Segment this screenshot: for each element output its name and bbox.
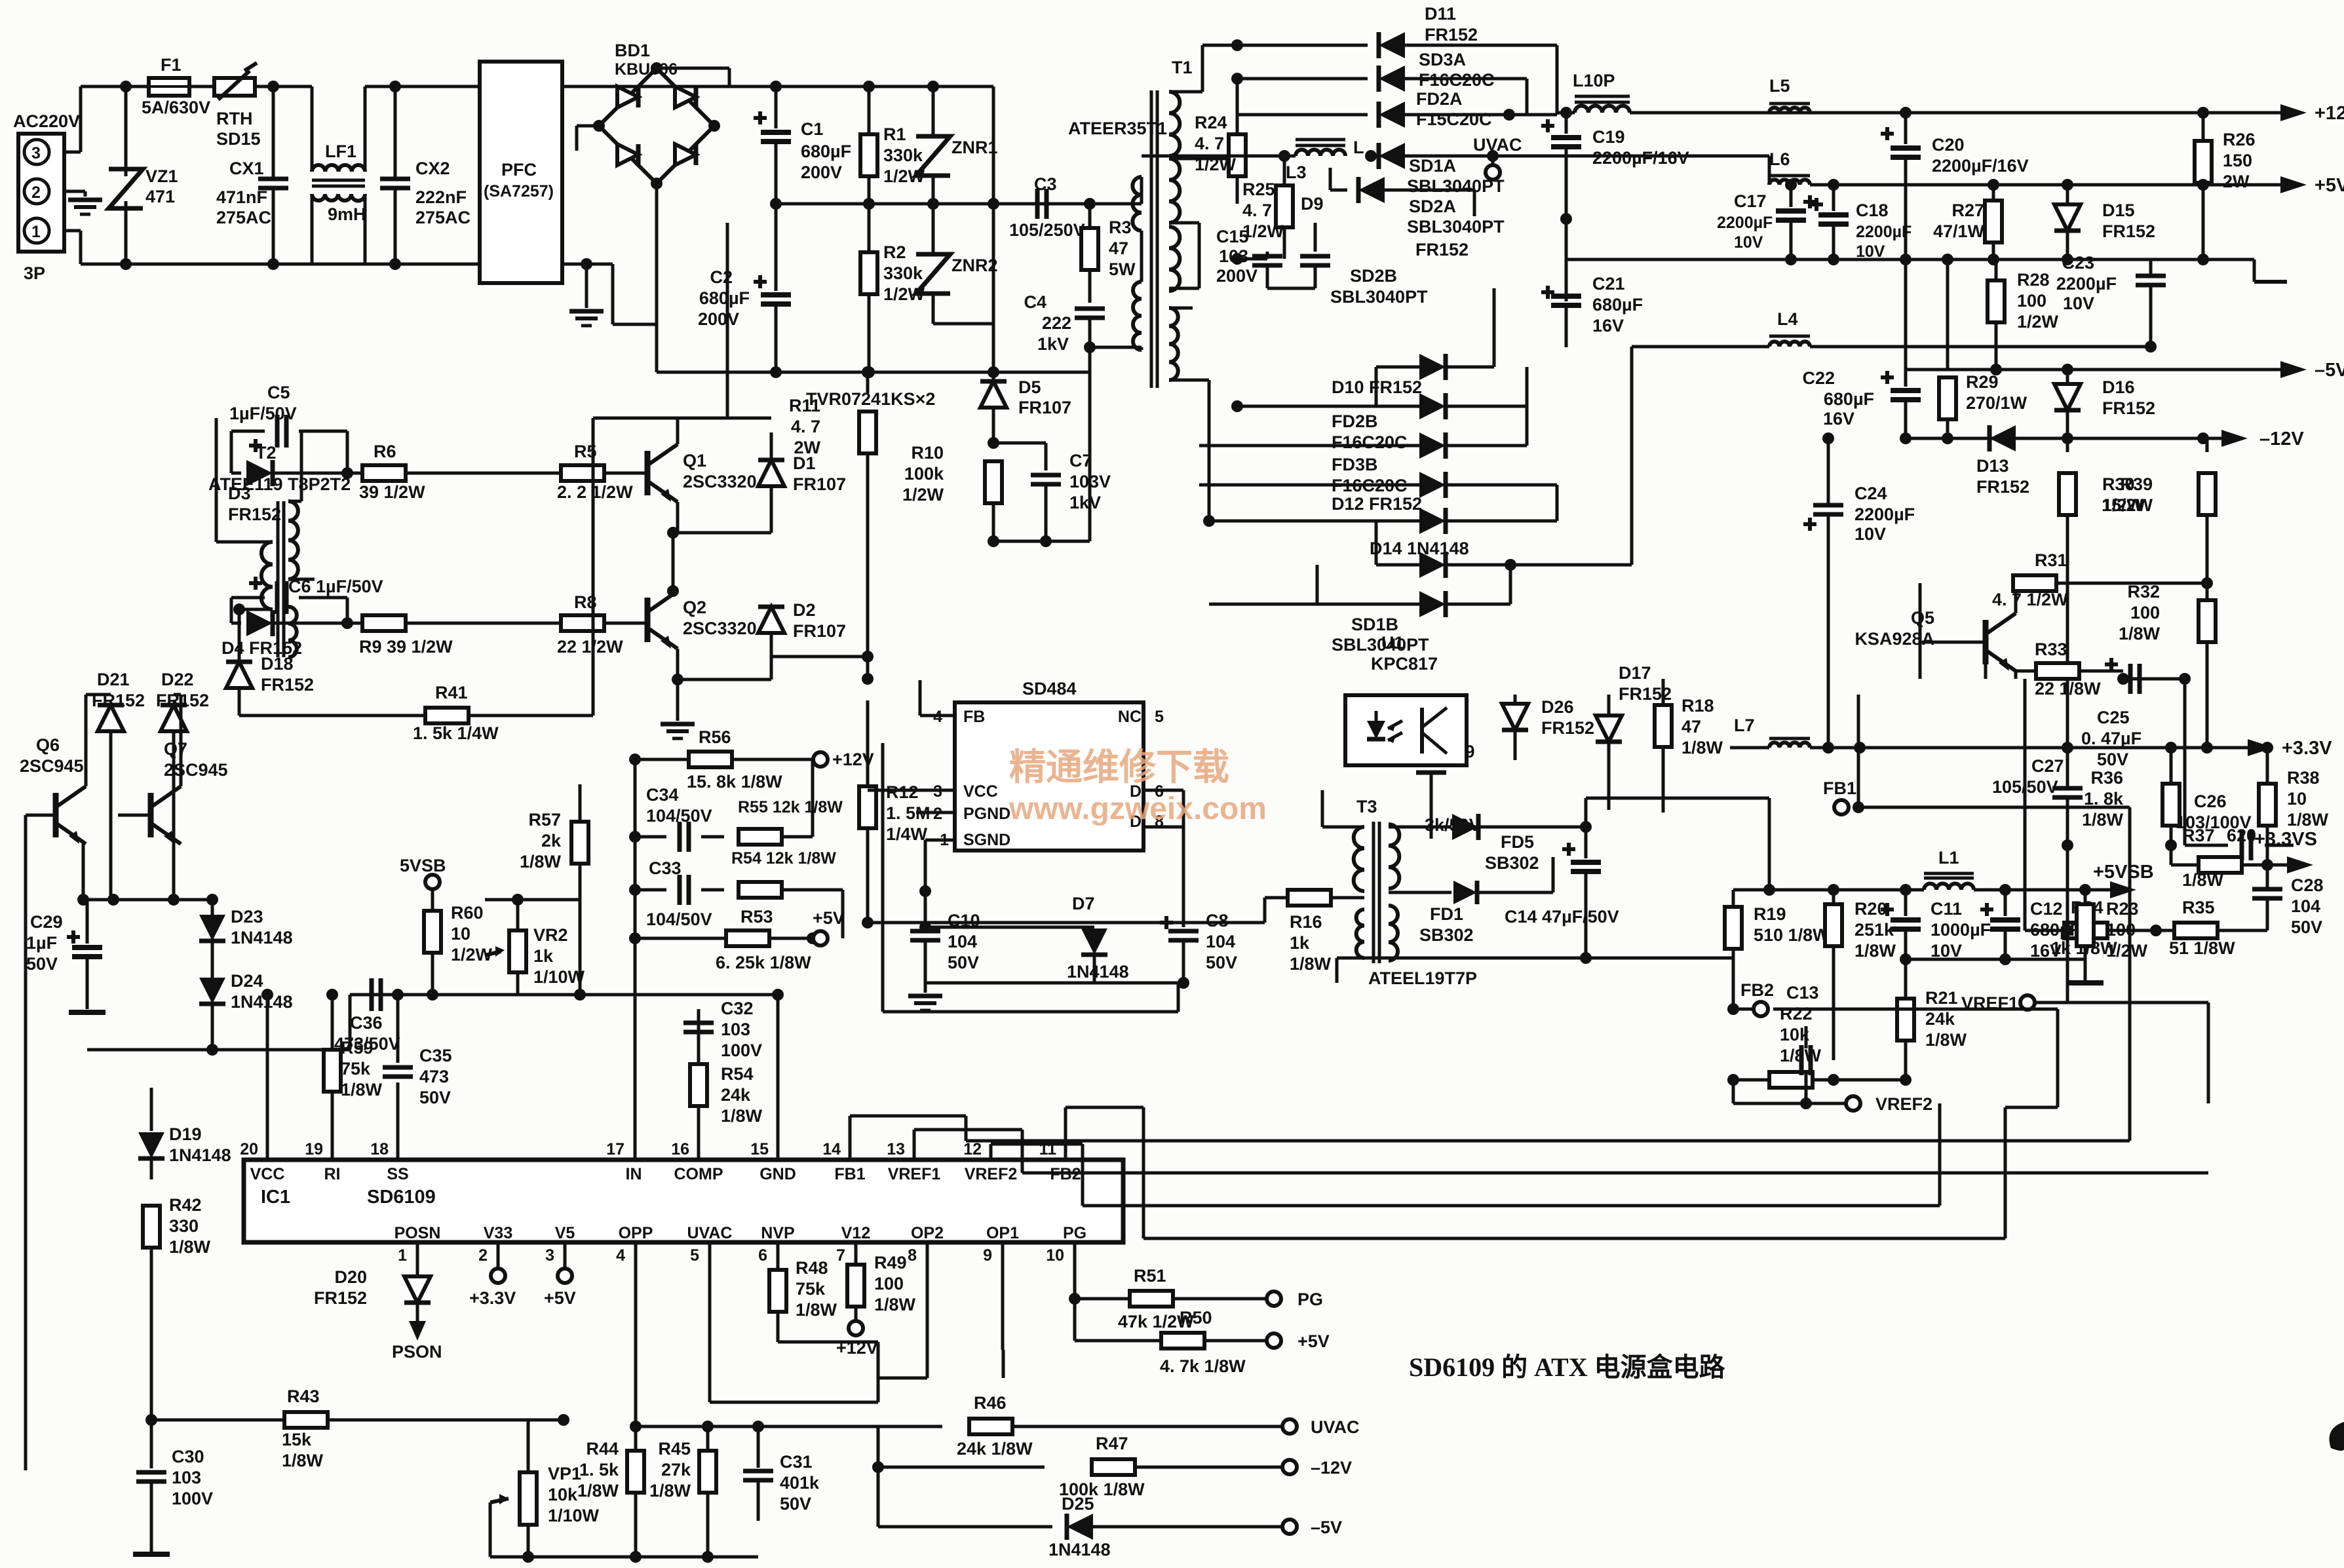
- capacitor C10 104 50V: [910, 911, 980, 993]
- svg-text:1. 5k 1/4W: 1. 5k 1/4W: [413, 723, 499, 743]
- svg-text:L4: L4: [1777, 309, 1798, 329]
- svg-text:10: 10: [1046, 1246, 1064, 1265]
- wire long OPP net: [0, 0, 1, 1]
- svg-text:OPP: OPP: [619, 1224, 653, 1242]
- wire SD484 pin3 VCC: [868, 789, 955, 792]
- diode D5 FR107: [980, 372, 1071, 425]
- svg-text:SD1B: SD1B: [1351, 615, 1398, 634]
- diode D24 1N4148: [199, 971, 293, 1050]
- svg-text:T1: T1: [1172, 58, 1193, 77]
- svg-text:UVAC: UVAC: [687, 1224, 733, 1242]
- svg-text:FR152: FR152: [228, 505, 281, 524]
- svg-text:L: L: [1353, 138, 1364, 157]
- svg-text:SGND: SGND: [963, 831, 1010, 849]
- svg-text:100k: 100k: [904, 464, 944, 484]
- svg-text:POSN: POSN: [394, 1224, 441, 1242]
- svg-text:SD15: SD15: [216, 129, 261, 149]
- capacitor C6 1uF/50V: [231, 577, 383, 623]
- svg-text:FR152: FR152: [156, 691, 209, 710]
- svg-text:IC1: IC1: [261, 1187, 290, 1208]
- capacitor C7 103V 1kV: [988, 451, 1111, 547]
- wire VREF2 pin column: [991, 1103, 1940, 1206]
- svg-text:200V: 200V: [698, 309, 739, 329]
- svg-text:24k: 24k: [1925, 1009, 1955, 1029]
- svg-text:D10 FR152: D10 FR152: [1332, 377, 1422, 397]
- diode D13 FR152: [1976, 425, 2029, 497]
- svg-text:SBL3040PT: SBL3040PT: [1332, 635, 1429, 655]
- ground at PFC right: [569, 258, 604, 326]
- wire FD5 out to 5VSB rail: [0, 0, 1, 1]
- svg-text:2200µF: 2200µF: [1856, 223, 1912, 241]
- svg-text:10: 10: [451, 924, 471, 944]
- svg-text:16V: 16V: [1823, 409, 1854, 429]
- svg-text:100: 100: [2130, 603, 2160, 622]
- svg-text:D7: D7: [1072, 894, 1095, 913]
- svg-text:–5V: –5V: [2315, 360, 2344, 381]
- svg-text:680µF: 680µF: [1592, 295, 1643, 315]
- svg-text:FR152: FR152: [261, 675, 314, 695]
- svg-text:1/8W: 1/8W: [796, 1300, 837, 1320]
- svg-text:R29: R29: [1966, 372, 1999, 392]
- svg-text:D11: D11: [1425, 4, 1456, 24]
- svg-text:KPC817: KPC817: [1371, 654, 1438, 674]
- svg-text:R31: R31: [2035, 550, 2067, 570]
- capacitor C31 401k 50V: [743, 1426, 820, 1521]
- svg-text:1/8W: 1/8W: [2182, 870, 2224, 890]
- svg-text:1000µF: 1000µF: [1931, 920, 1991, 940]
- resistor R6 39 1/2W: [347, 442, 459, 502]
- wire FB2 pin column: [0, 0, 1, 1]
- svg-text:D25: D25: [1062, 1494, 1094, 1514]
- svg-text:R22: R22: [1780, 1004, 1813, 1023]
- resistor R18 47 1/8W: [1655, 679, 1723, 813]
- svg-text:R19: R19: [1754, 904, 1786, 924]
- wire +3.3V rail: [1810, 742, 2248, 754]
- svg-text:19: 19: [305, 1140, 323, 1158]
- svg-text:PGND: PGND: [963, 805, 1010, 823]
- svg-text:SS: SS: [387, 1165, 408, 1183]
- capacitor C30 103 100V: [133, 1420, 213, 1554]
- svg-text:C18: C18: [1856, 201, 1889, 220]
- svg-text:2W: 2W: [2223, 172, 2250, 191]
- svg-text:R47: R47: [1096, 1434, 1128, 1453]
- wire T1 primary bottom: [1140, 231, 1142, 350]
- wire -12V rail: [1900, 432, 2221, 444]
- svg-text:100V: 100V: [172, 1489, 213, 1508]
- diode D17 FR152: [1596, 663, 1672, 810]
- svg-text:R42: R42: [169, 1195, 202, 1215]
- diode D12 FR152: [1203, 485, 1557, 534]
- svg-text:251k: 251k: [1854, 920, 1894, 940]
- wire box top to R12: [0, 0, 1, 1]
- wire C4 to T1 bottom: [1090, 347, 1140, 372]
- terminal +3.3V pin2: [469, 1242, 516, 1308]
- svg-text:BD1: BD1: [615, 41, 650, 60]
- svg-text:47/1W: 47/1W: [1933, 221, 1985, 241]
- capacitor C36 473/50V: [334, 978, 400, 1054]
- svg-text:OP2: OP2: [911, 1224, 944, 1242]
- svg-text:50V: 50V: [26, 954, 58, 974]
- wire mid to Q2 collector: [667, 533, 679, 597]
- svg-text:SBL3040PT: SBL3040PT: [1330, 287, 1428, 307]
- resistor R57 2k 1/8W: [520, 784, 588, 900]
- svg-text:24k: 24k: [721, 1085, 751, 1105]
- capacitor C25 0.47uF 50V: [2117, 673, 2159, 685]
- transistor Q1 2SC3320: [647, 444, 757, 502]
- resistor R30 1/2W: [2059, 438, 2144, 748]
- arrow +5V: [2261, 175, 2344, 196]
- capacitor C32 103 100V: [683, 999, 762, 1064]
- wire UVAC row: [630, 1421, 942, 1432]
- svg-text:6. 25k 1/8W: 6. 25k 1/8W: [716, 953, 811, 972]
- svg-text:471nF: 471nF: [216, 187, 267, 207]
- resistor R8 22 1/2W: [459, 592, 647, 657]
- arrow -12V: [2202, 429, 2304, 449]
- wire R42 bottom to R43 row: [145, 1414, 157, 1426]
- svg-text:104/50V: 104/50V: [646, 909, 712, 929]
- wire R19 bottom FB2 row: [0, 0, 1, 1]
- wire C10 top: [919, 885, 931, 931]
- terminal VREF2: [1806, 1094, 1932, 1114]
- svg-text:SB302: SB302: [1419, 925, 1474, 945]
- svg-text:C5: C5: [267, 383, 290, 402]
- svg-text:SD1A: SD1A: [1409, 156, 1456, 176]
- diode D10 FR152: [1231, 377, 1527, 419]
- svg-text:680µF: 680µF: [699, 288, 750, 308]
- wire T2 top winding to driver: [288, 431, 301, 501]
- svg-text:–12V: –12V: [1311, 1458, 1352, 1478]
- svg-text:C29: C29: [30, 912, 63, 932]
- diode D15 FR152: [2054, 185, 2155, 259]
- svg-text:D20: D20: [334, 1267, 367, 1287]
- wire to R11 column: [0, 0, 1, 1]
- svg-text:R12: R12: [886, 782, 919, 802]
- wire OP1 to right: [1002, 1350, 1005, 1378]
- svg-text:222: 222: [1042, 313, 1071, 333]
- label FR152 mid: [1415, 240, 1469, 259]
- svg-text:UVAC: UVAC: [1473, 135, 1522, 155]
- svg-text:C3: C3: [1034, 174, 1057, 194]
- capacitor CX1 471nF 275AC: [216, 86, 288, 264]
- capacitor C34 104/50V: [635, 785, 724, 852]
- svg-text:2SC945: 2SC945: [20, 756, 84, 776]
- capacitor C35 473 50V: [383, 989, 452, 1107]
- resistor R55 12k 1/8W: [738, 759, 843, 845]
- svg-text:C11: C11: [1931, 899, 1962, 919]
- capacitor C8 104 50V: [1160, 911, 1237, 989]
- thermistor RTH SD15: [214, 63, 312, 149]
- svg-text:RTH: RTH: [216, 109, 253, 128]
- wire FB1 pin column: [850, 1116, 2130, 1160]
- svg-text:PSON: PSON: [392, 1342, 442, 1362]
- resistor R24 4.7 1/2W: [1195, 79, 1246, 204]
- svg-text:50V: 50V: [419, 1088, 451, 1107]
- svg-text:1N4148: 1N4148: [231, 928, 293, 947]
- svg-text:10V: 10V: [2063, 294, 2094, 313]
- diode D26 FR152: [1502, 695, 1594, 760]
- svg-text:F15C20C: F15C20C: [1416, 109, 1492, 129]
- capacitor C23 2200uF 10V: [0, 0, 1, 1]
- svg-text:SD6109 的 ATX 电源盒电路: SD6109 的 ATX 电源盒电路: [1409, 1352, 1726, 1382]
- svg-text:C2: C2: [710, 267, 733, 287]
- svg-text:2SC945: 2SC945: [164, 760, 228, 780]
- transformer T3 ATEEL19T7P: [1354, 797, 1477, 988]
- svg-text:R1: R1: [883, 124, 906, 144]
- resistor R41 1.5k 1/4W: [239, 683, 593, 743]
- resistor R27 47/1W: [1933, 185, 2002, 259]
- svg-text:1/8W: 1/8W: [649, 1481, 691, 1501]
- svg-text:50V: 50V: [1206, 953, 1237, 972]
- svg-text:VREF2: VREF2: [1875, 1094, 1932, 1114]
- common-mode choke LF1 9mH: [312, 86, 395, 264]
- svg-text:7: 7: [836, 1246, 845, 1265]
- capacitor C20 2200uF/16V: [1881, 113, 2029, 259]
- svg-text:1kV: 1kV: [1037, 334, 1069, 354]
- svg-text:1/2W: 1/2W: [2106, 941, 2148, 961]
- svg-text:14: 14: [822, 1140, 841, 1158]
- svg-text:Q5: Q5: [1911, 608, 1934, 628]
- terminal PG: [1267, 1290, 1323, 1309]
- svg-text:R10: R10: [911, 443, 944, 463]
- svg-text:222nF: 222nF: [415, 187, 467, 207]
- svg-text:+3.3V: +3.3V: [469, 1288, 516, 1308]
- svg-text:104: 104: [1206, 932, 1235, 951]
- svg-text:R27: R27: [1951, 201, 1984, 220]
- wire R34 left to C25: [2024, 679, 2027, 930]
- resistor R45 27k 1/8W: [649, 1426, 716, 1557]
- svg-text:20: 20: [240, 1140, 258, 1158]
- diode D7 sym: [919, 894, 1129, 983]
- wire C8 bottom rail: [925, 982, 1183, 985]
- resistor R21 24k 1/8W: [1897, 959, 1967, 1080]
- svg-text:精通维修下载: 精通维修下载: [1009, 746, 1229, 788]
- svg-text:FD2B: FD2B: [1332, 411, 1378, 431]
- svg-text:R43: R43: [287, 1386, 320, 1406]
- svg-text:2. 2 1/2W: 2. 2 1/2W: [557, 482, 633, 502]
- wire mid rail: [770, 198, 1090, 210]
- resistor R10 100k 1/2W: [902, 425, 1002, 541]
- capacitor C4 222 1kV: [1024, 292, 1105, 354]
- svg-text:CX1: CX1: [229, 159, 264, 178]
- capacitor C3 105/250V: [993, 174, 1096, 240]
- wire pin18 SS column: [396, 1082, 400, 1160]
- svg-text:103: 103: [721, 1020, 750, 1039]
- svg-text:103: 103: [172, 1468, 201, 1487]
- svg-text:RI: RI: [324, 1165, 341, 1183]
- svg-text:R38: R38: [2287, 768, 2320, 788]
- svg-text:4. 7 1/2W: 4. 7 1/2W: [1992, 590, 2068, 609]
- svg-text:270/1W: 270/1W: [1966, 393, 2027, 413]
- svg-text:FR152: FR152: [1541, 718, 1594, 738]
- svg-text:1/8W: 1/8W: [341, 1080, 383, 1100]
- svg-text:VR2: VR2: [533, 925, 568, 945]
- wire Q7 emitter: [0, 0, 1, 1]
- wire R10 top node: [988, 437, 1046, 470]
- svg-text:C26: C26: [2194, 792, 2227, 811]
- wire NVP column down: [0, 0, 1, 1]
- svg-text:200V: 200V: [1216, 266, 1258, 286]
- svg-text:(SA7257): (SA7257): [484, 182, 554, 201]
- wire PG column: [1069, 1242, 1081, 1341]
- svg-text:V33: V33: [484, 1224, 512, 1242]
- transistor Q6 2SC945: [20, 735, 86, 844]
- svg-text:R39: R39: [2120, 474, 2153, 494]
- svg-text:12: 12: [963, 1140, 982, 1158]
- capacitor C27 sym: [1992, 748, 2083, 885]
- resistor R36 1.8k 1/8W: [0, 0, 1, 1]
- transformer T2 ATEE119 T8P2T2: [208, 443, 351, 657]
- svg-text:1/8W: 1/8W: [1925, 1030, 1967, 1050]
- wire Q1 emitter to mid: [667, 502, 771, 539]
- svg-text:KBU606: KBU606: [615, 60, 678, 79]
- terminal +5V mid: [813, 908, 845, 946]
- svg-text:75k: 75k: [796, 1279, 826, 1299]
- wire under C7: [1088, 347, 1092, 541]
- svg-text:IN: IN: [626, 1165, 642, 1183]
- diode D3 FR152: [228, 460, 353, 524]
- diode FD5 sym: [1389, 814, 1592, 873]
- svg-text:104: 104: [948, 932, 977, 951]
- svg-text:4. 7k 1/8W: 4. 7k 1/8W: [1160, 1356, 1246, 1376]
- svg-text:C34: C34: [646, 785, 679, 805]
- svg-text:2200µF/16V: 2200µF/16V: [1932, 156, 2029, 176]
- junction dots AC rails: [120, 81, 401, 270]
- svg-text:C30: C30: [172, 1447, 204, 1466]
- svg-text:FB2: FB2: [1740, 980, 1774, 1000]
- svg-text:620: 620: [2227, 826, 2256, 845]
- capacitor C5 1uF/50V: [0, 0, 1, 1]
- svg-text:Q6: Q6: [36, 735, 60, 755]
- svg-text:R37: R37: [2182, 826, 2215, 845]
- svg-text:R26: R26: [2223, 130, 2256, 149]
- wire VREF1 feedback drop: [2207, 1003, 2210, 1103]
- svg-text:R32: R32: [2127, 582, 2160, 602]
- svg-text:+12V: +12V: [832, 750, 874, 769]
- diode D11 FR152: [1379, 4, 1557, 58]
- svg-text:SBL3040PT: SBL3040PT: [1407, 217, 1505, 237]
- svg-text:COMP: COMP: [674, 1165, 723, 1183]
- svg-text:39 1/2W: 39 1/2W: [359, 482, 425, 502]
- svg-text:SD2B: SD2B: [1350, 266, 1397, 286]
- svg-text:C22: C22: [1802, 368, 1835, 388]
- wire C27 bottom junction: [2062, 839, 2073, 851]
- svg-text:R18: R18: [1681, 696, 1714, 716]
- svg-text:+5VSB: +5VSB: [2093, 862, 2154, 883]
- svg-text:TVR07241KS×2: TVR07241KS×2: [806, 389, 935, 409]
- svg-text:VZ1: VZ1: [145, 166, 178, 186]
- wire main B+ rail: [729, 81, 993, 92]
- wire R16 bottom: [868, 921, 1265, 925]
- svg-text:CX2: CX2: [415, 159, 450, 178]
- capacitor C13 labels: [0, 0, 1, 1]
- svg-text:–12V: –12V: [2259, 429, 2304, 449]
- svg-text:VREF2: VREF2: [965, 1165, 1018, 1183]
- wire SD484 pin4 FB: [920, 680, 955, 716]
- svg-text:D18: D18: [261, 654, 294, 674]
- svg-text:D12 FR152: D12 FR152: [1332, 494, 1422, 514]
- varistor ZNR1: [916, 86, 998, 204]
- terminal +5V pin3: [544, 1242, 576, 1308]
- svg-text:1/8W: 1/8W: [169, 1237, 211, 1257]
- svg-text:–5V: –5V: [1311, 1518, 1342, 1537]
- resistor R9 39 1/2W: [347, 615, 459, 657]
- svg-text:R53: R53: [740, 907, 773, 927]
- svg-text:1k: 1k: [1290, 933, 1310, 953]
- svg-text:473: 473: [419, 1067, 449, 1086]
- svg-text:C33: C33: [649, 858, 682, 878]
- resistor R32 100 1/8W: [2119, 582, 2216, 679]
- svg-text:FR107: FR107: [1018, 398, 1071, 417]
- bridge rectifier BD1 KBU606: [593, 41, 720, 189]
- wire +12V rail: [1630, 107, 2280, 119]
- svg-text:R28: R28: [2017, 270, 2050, 290]
- resistor R34 1k 1/8W: [2025, 923, 2156, 938]
- svg-text:1N4148: 1N4148: [1067, 962, 1129, 982]
- svg-text:FD2A: FD2A: [1416, 89, 1463, 109]
- wire T1 secondary taps: [1169, 45, 1237, 521]
- wire -12V row: [872, 1426, 1045, 1473]
- wire D19 top: [150, 1088, 153, 1131]
- svg-text:R51: R51: [1134, 1266, 1166, 1286]
- svg-text:C25: C25: [2097, 708, 2130, 727]
- inductor L3 with core: [1142, 138, 1364, 182]
- block SD484: [955, 679, 1143, 851]
- svg-text:R41: R41: [435, 683, 468, 702]
- svg-text:2200µF: 2200µF: [1854, 505, 1915, 524]
- resistor R33 22 1/8W: [2016, 640, 2123, 698]
- diode FD5 SB302: [0, 0, 1, 1]
- svg-text:5A/630V: 5A/630V: [142, 98, 210, 117]
- potentiometer VP1 10k 1/10W: [490, 1420, 600, 1557]
- svg-text:F16C20C: F16C20C: [1332, 476, 1408, 495]
- capacitor C12 680uF 16V: [1980, 890, 2081, 961]
- diode D1 FR107: [758, 432, 846, 533]
- svg-text:R6: R6: [374, 442, 396, 461]
- svg-text:+5V: +5V: [2315, 175, 2344, 196]
- wire SD484 outer box: [883, 743, 1178, 1012]
- capacitor C17 2200uF 10V: [1717, 179, 1816, 259]
- svg-text:330k: 330k: [883, 145, 923, 165]
- transistor Q2 2SC3320: [647, 591, 757, 649]
- wire standby low rail: [87, 1044, 350, 1056]
- svg-text:FR152: FR152: [314, 1288, 367, 1308]
- wire T2 windings connections: [288, 578, 315, 581]
- wire SD stack buses: [1494, 288, 1632, 565]
- svg-text:1/4W: 1/4W: [886, 824, 928, 844]
- svg-text:1kV: 1kV: [1069, 493, 1101, 512]
- svg-text:10V: 10V: [1734, 233, 1763, 252]
- resistor R54b 24k 1/8W: [690, 1064, 763, 1160]
- svg-text:1k: 1k: [533, 946, 554, 966]
- svg-text:2k: 2k: [541, 831, 562, 851]
- wire left winding bottom to D18: [233, 603, 273, 665]
- svg-text:L5: L5: [1769, 76, 1790, 96]
- svg-text:SD6109: SD6109: [367, 1187, 436, 1208]
- svg-text:R16: R16: [1290, 912, 1322, 932]
- wire Q6 Q7 tops: [86, 695, 181, 786]
- svg-text:UVAC: UVAC: [1311, 1417, 1360, 1437]
- wire pin2 to ground: [64, 191, 85, 197]
- svg-text:FD5: FD5: [1501, 832, 1534, 852]
- resistor R42 330 1/8W: [143, 1195, 211, 1420]
- svg-text:V5: V5: [555, 1224, 575, 1242]
- svg-text:D9: D9: [1301, 194, 1324, 214]
- capacitor C13 104 50V: [0, 0, 1, 1]
- capacitor C33 104/50V: [635, 858, 724, 929]
- svg-text:27k: 27k: [661, 1460, 691, 1480]
- wire SD484 pin1 SGND: [925, 840, 955, 927]
- diode D4 FR152: [221, 610, 353, 658]
